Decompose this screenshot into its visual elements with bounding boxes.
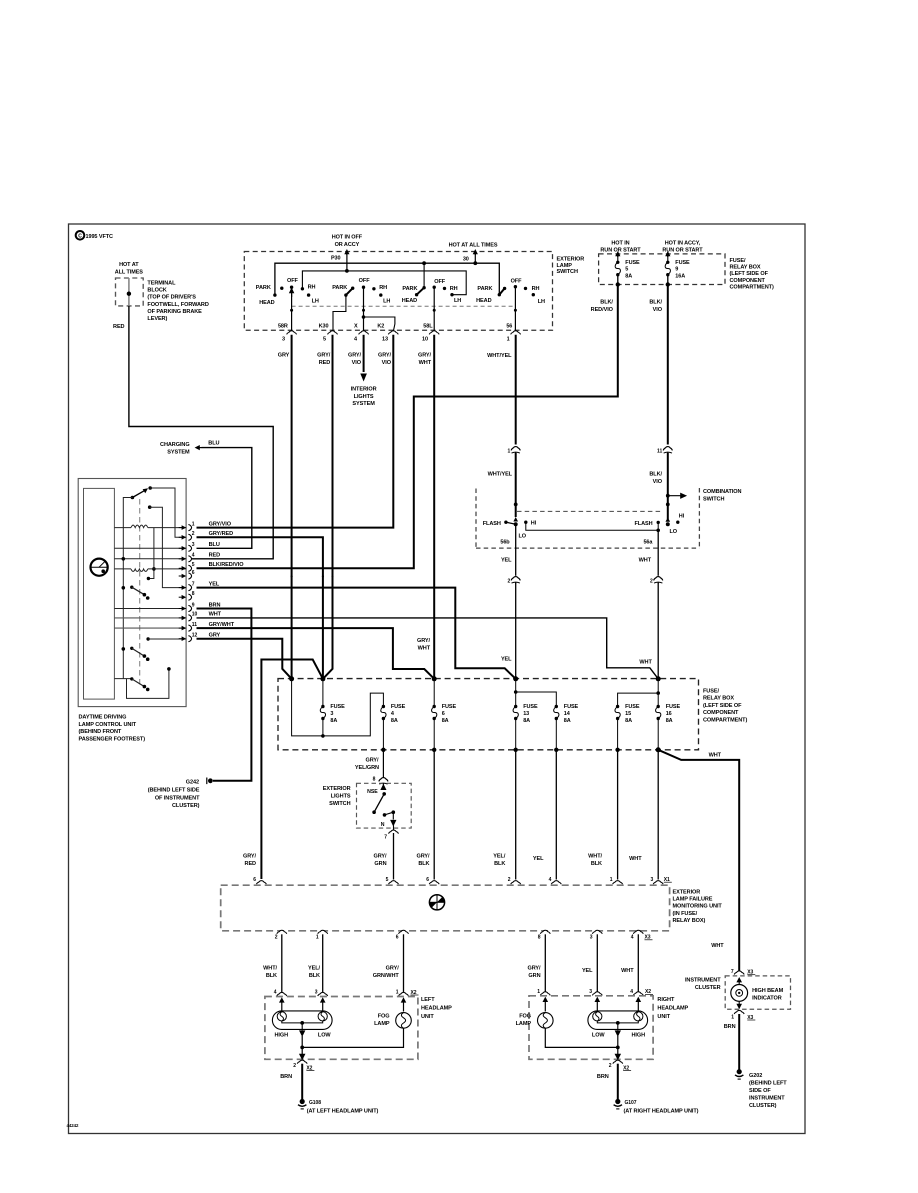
svg-text:GRY/: GRY/ <box>416 853 430 859</box>
svg-text:3: 3 <box>589 989 592 995</box>
svg-text:3: 3 <box>650 877 653 883</box>
wire GRY/BLK fuse6 to monitor <box>433 750 435 880</box>
wire YEL fuse14 to monitor <box>555 750 557 880</box>
svg-text:30: 30 <box>463 256 469 262</box>
svg-text:VIO: VIO <box>653 307 663 313</box>
svg-text:BLK: BLK <box>309 973 320 979</box>
left bulb filament LOW <box>318 1012 327 1021</box>
svg-text:4: 4 <box>631 935 634 941</box>
svg-text:LH: LH <box>312 298 319 304</box>
svg-text:GRY/: GRY/ <box>418 353 432 359</box>
svg-text:BLU: BLU <box>209 542 220 548</box>
DRL relay contact 1 <box>122 586 126 590</box>
svg-text:VIO: VIO <box>352 360 362 366</box>
svg-text:8A: 8A <box>391 718 398 724</box>
svg-text:YEL/: YEL/ <box>493 853 506 859</box>
svg-text:BLOCK: BLOCK <box>147 287 166 293</box>
svg-text:BLK: BLK <box>266 973 277 979</box>
svg-text:RH: RH <box>532 286 540 292</box>
svg-text:HOT IN OFF: HOT IN OFF <box>332 235 363 241</box>
svg-text:WHT: WHT <box>418 646 431 652</box>
wire 30 feed to bus 1 <box>474 253 476 264</box>
svg-text:WHT: WHT <box>629 856 642 862</box>
wire group4 OFF to terminal 56 <box>514 287 516 332</box>
svg-text:X: X <box>354 323 358 329</box>
svg-text:WHT/: WHT/ <box>263 966 277 972</box>
terminal block bus bar <box>128 278 130 306</box>
svg-text:GRY/: GRY/ <box>317 353 331 359</box>
wire group2 OFF to terminal X <box>363 287 365 331</box>
svg-text:10: 10 <box>192 612 198 618</box>
svg-text:LIGHTS: LIGHTS <box>354 394 374 400</box>
DRL pin10 internal line <box>114 617 186 619</box>
svg-text:(AT RIGHT HEADLAMP UNIT): (AT RIGHT HEADLAMP UNIT) <box>624 1109 699 1115</box>
svg-text:GRY/: GRY/ <box>386 966 400 972</box>
svg-text:RED: RED <box>319 360 331 366</box>
svg-text:HOT AT: HOT AT <box>119 262 139 268</box>
connector 1 X3 indicator bottom <box>734 1010 744 1014</box>
svg-text:8A: 8A <box>625 718 632 724</box>
svg-text:1: 1 <box>731 1015 734 1021</box>
svg-text:FUSE/: FUSE/ <box>730 258 746 264</box>
svg-text:CLUSTER): CLUSTER) <box>749 1103 777 1109</box>
inline connector 2 on WHT <box>657 578 660 581</box>
svg-text:SIDE OF: SIDE OF <box>749 1088 771 1094</box>
svg-text:WHT: WHT <box>639 558 652 564</box>
svg-text:FUSE: FUSE <box>523 704 538 710</box>
inline connector 11 on BLK/VIO <box>667 448 670 451</box>
DRL coil 2 on pin5 line <box>114 568 131 570</box>
svg-text:SYSTEM: SYSTEM <box>352 401 375 407</box>
svg-text:1: 1 <box>396 990 399 996</box>
svg-text:8A: 8A <box>523 718 530 724</box>
power arrow 30 <box>474 252 476 256</box>
svg-text:OF PARKING BRAKE: OF PARKING BRAKE <box>147 309 202 315</box>
svg-text:GRN: GRN <box>374 861 386 867</box>
wire YEL out of left dimmer <box>515 524 517 576</box>
svg-text:RED: RED <box>245 861 257 867</box>
fuse F14 8A <box>555 705 558 708</box>
fuse F13 8A <box>515 679 517 707</box>
svg-text:8A: 8A <box>625 274 632 280</box>
monitor unit bottom connectors <box>277 930 287 934</box>
DRL pin9 internal line <box>114 608 186 610</box>
svg-text:COMPONENT: COMPONENT <box>703 710 739 716</box>
feed junction dots on fuse box top edge <box>289 676 294 681</box>
svg-text:P30: P30 <box>331 256 341 262</box>
DRL pin3 internal line <box>114 547 186 549</box>
svg-text:4: 4 <box>192 553 195 559</box>
svg-text:56a: 56a <box>643 540 653 546</box>
svg-text:1: 1 <box>507 448 510 454</box>
svg-text:CLUSTER): CLUSTER) <box>172 803 200 809</box>
internal rail from GRY feed to fuse4 <box>292 679 384 736</box>
wire WHT/YEL column F <box>515 335 517 445</box>
svg-text:WHT/: WHT/ <box>588 853 602 859</box>
svg-text:RELAY BOX): RELAY BOX) <box>673 918 706 924</box>
tiny junction marks row <box>291 575 293 577</box>
svg-text:(AT LEFT HEADLAMP UNIT): (AT LEFT HEADLAMP UNIT) <box>307 1109 379 1115</box>
right headlamp entry arrows <box>543 997 549 1002</box>
right bulb filament LOW <box>593 1012 602 1021</box>
svg-text:GRY/: GRY/ <box>365 758 379 764</box>
svg-text:HEADLAMP: HEADLAMP <box>421 1006 452 1012</box>
svg-text:FUSE: FUSE <box>442 704 457 710</box>
bus 2 (RH feed) <box>302 271 466 295</box>
svg-text:GRN: GRN <box>528 973 540 979</box>
svg-text:HIGH: HIGH <box>632 1032 646 1038</box>
svg-text:3: 3 <box>590 935 593 941</box>
svg-text:3: 3 <box>315 990 318 996</box>
connector 7 below switch <box>389 830 399 834</box>
svg-text:HOT IN: HOT IN <box>611 240 629 246</box>
svg-text:FUSE/: FUSE/ <box>703 689 719 695</box>
svg-text:BLK: BLK <box>591 861 602 867</box>
DRL wire lever to vertical bus <box>123 498 132 679</box>
DRL coil 1 on pin1 line <box>114 527 131 529</box>
DRL pin connectors 1-12 <box>179 527 184 529</box>
junction group2 branch to K2 <box>362 315 366 319</box>
svg-text:YEL: YEL <box>582 968 593 974</box>
wire group2 HEAD jog to terminal K30 <box>333 295 346 331</box>
svg-text:LO: LO <box>670 529 678 535</box>
svg-text:58R: 58R <box>278 323 288 329</box>
svg-text:YEL/GRN: YEL/GRN <box>355 765 379 771</box>
svg-text:4: 4 <box>549 877 552 883</box>
wire WHT fuse16 to monitor <box>657 750 659 880</box>
svg-text:WHT: WHT <box>711 943 724 949</box>
wire BRN indicator to G202 <box>738 1014 740 1070</box>
svg-text:CLUSTER: CLUSTER <box>695 985 721 991</box>
wire P30 feed to bus 2 <box>346 253 348 271</box>
svg-text:13: 13 <box>382 336 388 342</box>
svg-text:2: 2 <box>275 935 278 941</box>
svg-text:INSTRUMENT: INSTRUMENT <box>685 978 721 984</box>
DRL relay contact 3 (bottom) <box>114 678 131 680</box>
svg-text:YEL: YEL <box>501 657 512 663</box>
svg-text:7: 7 <box>192 581 195 587</box>
svg-text:14: 14 <box>564 711 571 717</box>
svg-text:LAMP FAILURE: LAMP FAILURE <box>673 897 713 903</box>
svg-text:1: 1 <box>537 989 540 995</box>
svg-text:HEADLAMP: HEADLAMP <box>657 1006 688 1012</box>
svg-text:ALL TIMES: ALL TIMES <box>115 270 144 276</box>
wire YEL down to fuse box <box>515 583 517 679</box>
DRL pin7 internal feed <box>148 505 152 509</box>
fuse F6 8A <box>433 679 435 707</box>
bus 1 junction dots <box>422 261 426 265</box>
exterior lamp switch box <box>244 252 552 331</box>
svg-text:LEFT: LEFT <box>421 997 435 1003</box>
svg-text:BLK: BLK <box>494 861 505 867</box>
right headlamp X2 connectors <box>540 992 550 996</box>
svg-text:INDICATOR: INDICATOR <box>752 996 782 1002</box>
svg-text:5: 5 <box>323 336 326 342</box>
svg-text:(BEHIND LEFT: (BEHIND LEFT <box>749 1081 787 1087</box>
svg-text:(BEHIND LEFT SIDE: (BEHIND LEFT SIDE <box>148 788 200 794</box>
svg-text:5: 5 <box>386 877 389 883</box>
svg-text:FUSE: FUSE <box>564 704 579 710</box>
terminal block junction <box>127 292 131 296</box>
wire N contact down through box <box>391 812 396 825</box>
svg-text:LH: LH <box>454 298 461 304</box>
svg-text:C: C <box>78 234 82 240</box>
svg-text:PASSENGER FOOTREST): PASSENGER FOOTREST) <box>79 736 146 742</box>
svg-text:WHT: WHT <box>419 360 432 366</box>
svg-text:GRY/WHT: GRY/WHT <box>209 622 235 628</box>
svg-text:5: 5 <box>192 562 195 568</box>
svg-text:RELAY BOX: RELAY BOX <box>703 696 734 702</box>
svg-text:GRY: GRY <box>278 353 290 359</box>
wire WHT fuse16 to high beam indicator <box>658 750 739 972</box>
svg-text:G107: G107 <box>625 1100 637 1106</box>
svg-text:LH: LH <box>383 298 390 304</box>
svg-text:RH: RH <box>379 285 387 291</box>
wire BRN DRL pin9 to ground G242 <box>197 609 252 781</box>
svg-text:GRY/: GRY/ <box>378 353 392 359</box>
wire GRY/WHT DRL pin11 trunk <box>197 628 435 679</box>
svg-text:GRY: GRY <box>209 633 221 639</box>
svg-text:GRY/VIO: GRY/VIO <box>209 521 232 527</box>
ground G108 <box>300 1099 305 1104</box>
wire BLK/VIO to combination switch <box>667 453 669 519</box>
wire GRY/VIO column D to DRL pin 1 <box>197 335 394 528</box>
right headlamp dual filament bulb <box>588 1011 648 1030</box>
svg-text:16: 16 <box>666 711 672 717</box>
right bulb common <box>597 1021 638 1023</box>
svg-text:GRY/: GRY/ <box>527 966 541 972</box>
svg-text:YEL/: YEL/ <box>308 966 321 972</box>
inline connector 2 on YEL <box>514 578 517 581</box>
bus 1 drop to group3 PARK contact <box>423 263 425 288</box>
svg-text:COMPARTMENT): COMPARTMENT) <box>703 717 747 723</box>
svg-text:RUN OR START: RUN OR START <box>600 248 641 254</box>
svg-text:COMPONENT: COMPONENT <box>730 278 766 284</box>
svg-text:6: 6 <box>192 570 195 576</box>
svg-text:YEL: YEL <box>501 558 512 564</box>
svg-text:GRY/: GRY/ <box>417 638 431 644</box>
connector 7 X3 indicator top <box>734 971 744 975</box>
fuse F15 8A <box>616 705 619 708</box>
svg-text:LEVER): LEVER) <box>147 316 167 322</box>
svg-text:FUSE: FUSE <box>666 704 681 710</box>
svg-text:1: 1 <box>192 521 195 527</box>
right unit output to ground <box>616 1047 621 1059</box>
svg-text:GRY/: GRY/ <box>348 353 362 359</box>
wire GRY/GRN/WHT monitor to left fog lamp <box>403 934 405 993</box>
DRL relay contact 2 <box>122 647 126 651</box>
svg-text:PARK: PARK <box>477 286 492 292</box>
svg-text:FLASH: FLASH <box>483 521 501 527</box>
wire GRY/WHT column E <box>433 335 435 679</box>
fuse/relay box (middle) <box>278 679 699 750</box>
connector 8 exterior lights switch <box>382 779 385 782</box>
svg-text:SWITCH: SWITCH <box>703 496 724 502</box>
svg-text:6: 6 <box>442 711 445 717</box>
left headlamp X2 connectors <box>277 992 287 996</box>
right bulb filament HIGH <box>634 1012 643 1021</box>
direction arrow on BLK/VIO <box>668 493 686 498</box>
svg-text:G202: G202 <box>749 1073 762 1079</box>
high beam indicator lamp <box>731 985 748 1002</box>
wire WHT/BLK monitor to left headlamp <box>281 934 283 993</box>
wire fuse9 to box edge <box>667 275 669 285</box>
svg-text:LAMP: LAMP <box>374 1021 390 1027</box>
svg-text:8: 8 <box>192 591 195 597</box>
wire GRY/RED DRL pin2 to fuse3 and monitor <box>197 537 323 679</box>
svg-text:UNIT: UNIT <box>657 1014 670 1020</box>
wire GRY/RED column B <box>323 335 333 679</box>
fuse F16 8A <box>657 679 659 707</box>
exterior lights switch lever <box>374 794 384 812</box>
svg-text:(TOP OF DRIVER'S: (TOP OF DRIVER'S <box>147 295 196 301</box>
svg-text:PARK: PARK <box>402 286 417 292</box>
svg-text:FUSE: FUSE <box>625 260 640 266</box>
svg-text:RH: RH <box>450 286 458 292</box>
DRL relay pilot switch (top) <box>131 496 135 500</box>
svg-text:K2: K2 <box>377 323 384 329</box>
svg-text:3: 3 <box>282 336 285 342</box>
left unit output to ground <box>300 1047 305 1059</box>
svg-text:EXTERIOR: EXTERIOR <box>673 890 701 896</box>
svg-text:3: 3 <box>192 542 195 548</box>
svg-text:OR ACCY: OR ACCY <box>335 242 360 248</box>
svg-text:15: 15 <box>625 711 631 717</box>
svg-text:WHT: WHT <box>639 660 652 666</box>
svg-text:4: 4 <box>630 989 633 995</box>
svg-text:GRY/RED: GRY/RED <box>209 531 234 537</box>
svg-text:WHT: WHT <box>621 968 634 974</box>
right lamp common rail <box>616 1046 620 1050</box>
wire fuse5 to box edge <box>617 275 619 285</box>
svg-text:HEAD: HEAD <box>259 300 274 306</box>
left bulb filament HIGH <box>277 1012 286 1021</box>
svg-text:RED: RED <box>113 324 125 330</box>
svg-text:FOOTWELL, FORWARD: FOOTWELL, FORWARD <box>147 302 208 308</box>
svg-text:FUSE: FUSE <box>391 704 406 710</box>
switch mechanical link dashed <box>292 305 516 307</box>
wire GRY column A <box>291 335 293 679</box>
DRL pin12 internal line from contact <box>146 637 149 640</box>
ground G202 <box>737 1069 742 1074</box>
svg-text:YEL: YEL <box>209 581 220 587</box>
power arrow fuse 5 <box>617 254 619 258</box>
svg-text:(LEFT SIDE OF: (LEFT SIDE OF <box>703 703 742 709</box>
svg-text:1995 VFTC: 1995 VFTC <box>86 234 114 240</box>
branch to fuse F15 <box>618 693 659 706</box>
wire WHT/YEL to combination switch <box>515 453 517 517</box>
right fog lamp bulb <box>538 1013 554 1029</box>
terminal block box <box>116 278 144 306</box>
svg-text:UNIT: UNIT <box>421 1014 434 1020</box>
svg-text:OF INSTRUMENT: OF INSTRUMENT <box>155 795 200 801</box>
svg-text:FUSE: FUSE <box>675 260 690 266</box>
svg-text:BLK: BLK <box>418 861 429 867</box>
left headlamp unit box <box>265 997 418 1060</box>
svg-text:HIGH BEAM: HIGH BEAM <box>752 988 783 994</box>
switch group 2 lever PARK-HEAD <box>346 288 353 295</box>
DRL link coil1 to coil2 <box>148 528 154 579</box>
svg-text:GRY/: GRY/ <box>243 853 257 859</box>
svg-text:(BEHIND FRONT: (BEHIND FRONT <box>79 729 122 735</box>
svg-text:NSE: NSE <box>367 789 378 795</box>
lamp switch connectors 58R K30 X K2 58L 56 <box>287 331 297 335</box>
svg-text:VIO: VIO <box>653 479 663 485</box>
DRL pin11 internal line <box>114 627 186 629</box>
svg-text:RED: RED <box>209 553 221 559</box>
svg-text:LO: LO <box>519 534 527 540</box>
svg-text:FOG: FOG <box>519 1013 531 1019</box>
svg-text:BLK/: BLK/ <box>649 300 662 306</box>
svg-text:PARK: PARK <box>256 285 271 291</box>
right headlamp unit box <box>529 996 653 1060</box>
monitor unit logo <box>429 895 444 910</box>
svg-text:HOT AT ALL TIMES: HOT AT ALL TIMES <box>449 243 498 249</box>
svg-text:2: 2 <box>650 578 653 584</box>
switch group 4 lever PARK-HEAD <box>499 288 504 294</box>
svg-text:WHT/YEL: WHT/YEL <box>487 353 512 359</box>
exterior lights switch contacts <box>381 783 385 790</box>
wire branch to terminal K2 <box>364 317 395 332</box>
svg-text:LH: LH <box>538 299 545 305</box>
svg-text:58L: 58L <box>423 323 433 329</box>
svg-text:LAMP CONTROL UNIT: LAMP CONTROL UNIT <box>79 722 137 728</box>
DRL mechanical dashed link <box>139 499 141 688</box>
svg-text:6: 6 <box>396 935 399 941</box>
exterior lamp failure monitoring unit box <box>221 885 670 931</box>
svg-text:OFF: OFF <box>287 278 299 284</box>
svg-text:GRN/WHT: GRN/WHT <box>373 973 400 979</box>
DRL inner module rectangle <box>84 488 115 699</box>
bus 2 junction dot at P30 <box>345 269 349 273</box>
svg-text:HI: HI <box>679 514 685 520</box>
wire left dimmer HI to right dimmer <box>526 523 658 531</box>
svg-text:1: 1 <box>316 935 319 941</box>
svg-text:LAMP: LAMP <box>557 263 573 269</box>
fuse F4 8A <box>382 705 385 708</box>
svg-text:K30: K30 <box>319 323 329 329</box>
wire group3 OFF to terminal 58L <box>433 287 435 331</box>
svg-text:6: 6 <box>426 877 429 883</box>
svg-text:BLK/: BLK/ <box>600 300 613 306</box>
svg-text:SWITCH: SWITCH <box>329 801 350 807</box>
svg-text:G108: G108 <box>309 1100 321 1106</box>
svg-text:WHT: WHT <box>209 612 222 618</box>
svg-text:6: 6 <box>253 877 256 883</box>
switch group 1 lever (OFF position) <box>290 289 294 297</box>
wire WHT DRL pin10 trunk <box>197 618 659 679</box>
svg-text:9: 9 <box>675 267 678 273</box>
instrument cluster box <box>725 976 790 1009</box>
arrow to interior lights system <box>360 374 367 382</box>
svg-text:2: 2 <box>507 578 510 584</box>
svg-text:11: 11 <box>192 622 197 628</box>
ground G107 <box>615 1099 620 1104</box>
svg-text:8A: 8A <box>564 718 571 724</box>
svg-text:16A: 16A <box>675 274 685 280</box>
svg-text:INSTRUMENT: INSTRUMENT <box>749 1096 785 1102</box>
wire group1 OFF to terminal 58R <box>291 294 293 332</box>
svg-text:HI: HI <box>531 520 537 526</box>
svg-text:YEL: YEL <box>533 856 544 862</box>
svg-text:RIGHT: RIGHT <box>657 997 675 1003</box>
DRL pin4 internal line <box>114 558 186 560</box>
left headlamp entry arrows <box>279 997 285 1002</box>
wire GRY/YEL/GRN fuse4 to exterior lights switch <box>382 750 384 778</box>
wire YEL/BLK monitor to left headlamp <box>322 934 324 993</box>
DRL contact to pin2 link <box>150 488 186 537</box>
svg-text:FUSE: FUSE <box>625 704 640 710</box>
